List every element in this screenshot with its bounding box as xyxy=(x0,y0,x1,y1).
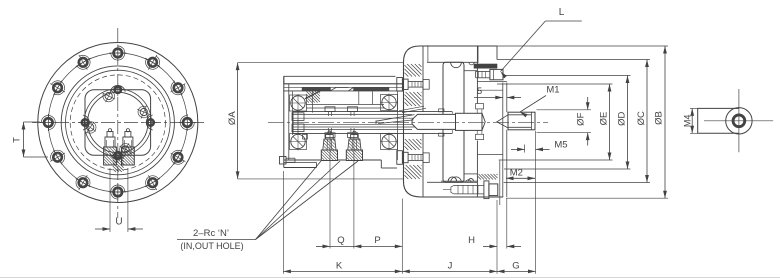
dimension M5 xyxy=(511,145,550,153)
front counterbore circle xyxy=(84,89,151,156)
shaft bore chevron xyxy=(497,115,508,128)
rotor pilot lines top xyxy=(464,71,477,174)
band gap chamfer right xyxy=(349,88,354,91)
bolt hole 8 at 210 deg xyxy=(46,146,69,169)
dimension J xyxy=(402,270,497,274)
svg-text:M5: M5 xyxy=(554,140,567,151)
bolt hole 4 at 90 deg xyxy=(109,45,126,62)
bearing at (389,102.5) xyxy=(380,94,398,112)
extension J right xyxy=(496,200,498,274)
extension K left xyxy=(282,171,284,274)
shaft end boss xyxy=(508,112,535,130)
stud bottom-left xyxy=(397,151,429,165)
collar top key xyxy=(476,104,484,114)
dimension K xyxy=(283,270,402,274)
big body group xyxy=(397,45,507,205)
leader L xyxy=(501,21,546,78)
rotor slab small notch top right xyxy=(469,62,474,65)
housing small block left xyxy=(303,135,308,140)
svg-text:2–Rc ‘N’: 2–Rc ‘N’ xyxy=(193,228,229,239)
M4 vertical center line xyxy=(738,89,740,152)
svg-text:M1: M1 xyxy=(546,85,559,96)
bolt hole 3 at 60 deg xyxy=(141,51,164,74)
dowel pin hole d xyxy=(116,140,135,159)
shaft left end caps xyxy=(293,112,298,134)
big body outline xyxy=(404,46,504,197)
rotor slab small notch bottom right xyxy=(466,180,471,183)
side port plug x=329.4 xyxy=(321,131,337,160)
svg-text:5: 5 xyxy=(477,86,482,97)
M4 thread outer circle xyxy=(732,114,746,128)
bolt hole 2 at 30 deg xyxy=(166,76,189,99)
leader L landing xyxy=(545,20,581,22)
shaft bundle lines xyxy=(293,112,452,134)
bearing at (389,141.5) xyxy=(380,133,398,151)
dimension 5 xyxy=(474,96,521,100)
svg-text:ØF: ØF xyxy=(575,112,586,125)
shaft tube xyxy=(412,114,456,129)
dimension M4 xyxy=(690,108,698,133)
stud bottom-right xyxy=(443,181,498,199)
dimension OD xyxy=(504,76,631,170)
pocket floor hatch xyxy=(478,174,498,180)
dimension OB xyxy=(497,46,668,198)
dowel pin hole b xyxy=(80,118,99,137)
leader line to port 3 xyxy=(256,161,359,240)
svg-text:ØD: ØD xyxy=(617,112,628,126)
housing group xyxy=(280,76,453,168)
bolt hole 7 at 180 deg xyxy=(40,114,57,131)
leader M1 xyxy=(520,96,546,118)
bolt hole 9 at 240 deg xyxy=(71,171,94,194)
shaft tube top key xyxy=(439,109,445,112)
svg-text:P: P xyxy=(374,235,380,246)
band gap chamfer left xyxy=(331,88,337,91)
svg-text:M4: M4 xyxy=(682,115,692,128)
housing top dark band right xyxy=(354,88,390,91)
seal stack block lower xyxy=(292,124,304,132)
tie rod top x=352.5 xyxy=(348,107,358,116)
boss bump at (118,155) xyxy=(110,149,125,162)
body hatch top-left b xyxy=(405,92,422,106)
bottom faint border line xyxy=(0,277,780,279)
pocket ceiling dark band xyxy=(474,64,497,68)
housing top dark band left xyxy=(302,88,331,91)
housing top line 3 xyxy=(284,90,404,92)
M4 thread ring bold xyxy=(733,115,744,126)
body bolt face vertical xyxy=(476,46,478,197)
tie rod top x=330.0 xyxy=(325,107,335,116)
inner face detail vertical xyxy=(427,45,429,62)
dimension U arrows xyxy=(95,227,143,231)
housing partition verticals xyxy=(313,91,373,112)
housing top edge xyxy=(284,83,404,85)
body hatch bottom-left b xyxy=(405,165,422,179)
svg-text:T: T xyxy=(12,137,23,143)
housing lower left stud xyxy=(280,157,296,165)
M4 end circle xyxy=(726,108,752,134)
svg-text:ØB: ØB xyxy=(653,111,664,125)
bolt hole 1 at 0 deg xyxy=(179,114,196,131)
bearing at (298,141.5) xyxy=(289,133,307,151)
housing sleeve top lines xyxy=(306,105,384,109)
band gap top line xyxy=(336,87,349,89)
leader underline xyxy=(177,239,256,241)
collar bottom key xyxy=(476,130,484,139)
tie rod bottom x=352.5 xyxy=(348,128,358,137)
svg-text:G: G xyxy=(512,260,519,271)
rotor slab bottom notch dome xyxy=(451,177,462,182)
shaft tube bottom key xyxy=(439,133,445,136)
svg-text:L: L xyxy=(559,7,565,18)
rotor flange face lines xyxy=(427,62,477,182)
front boss circle D58 xyxy=(61,66,174,179)
rotor slab xyxy=(443,62,464,182)
bolt hole 10 at 270 deg xyxy=(109,184,126,201)
M4 horizontal center line xyxy=(704,120,773,122)
front flange outer circle xyxy=(38,43,198,203)
dimension OC xyxy=(497,60,650,183)
bearing at (298,103) xyxy=(289,94,307,112)
dimension M2 xyxy=(506,131,536,274)
pocket shelf line xyxy=(477,81,506,83)
M4 boss body xyxy=(698,108,739,133)
svg-text:ØE: ØE xyxy=(598,112,609,126)
M4 detail group xyxy=(682,89,773,152)
front rotor square with rounded corners xyxy=(85,90,151,156)
body hatch top-left a xyxy=(405,64,422,77)
tie rod bottom x=330.0 xyxy=(325,128,335,137)
housing inner right vertical xyxy=(397,91,399,160)
svg-text:Q: Q xyxy=(337,235,344,246)
boss bump at (118,90) xyxy=(110,83,125,96)
front vertical center line xyxy=(117,28,119,218)
housing left face xyxy=(284,76,293,167)
housing bottom edge xyxy=(284,160,397,168)
extension Q right port centerline xyxy=(353,130,355,249)
extension Q left port centerline xyxy=(329,130,331,249)
svg-text:(IN,OUT HOLE): (IN,OUT HOLE) xyxy=(180,241,243,251)
side port plug x=354.4 xyxy=(346,131,362,160)
dimension H xyxy=(483,245,521,249)
boss bump at (85,122) xyxy=(79,115,92,130)
svg-text:U: U xyxy=(115,217,122,228)
housing bottom rib xyxy=(284,163,317,168)
dimension U extension lines xyxy=(110,168,128,232)
body lower right edge xyxy=(499,161,501,206)
leader line to port 1 xyxy=(256,161,322,240)
bolt hole 11 at 300 deg xyxy=(141,171,164,194)
front phantom circle dashed xyxy=(70,75,165,170)
stud top-left xyxy=(397,78,429,92)
front boss circle D53 xyxy=(66,70,171,175)
svg-text:ØC: ØC xyxy=(636,111,647,125)
housing top line 2 xyxy=(284,86,404,88)
shaft taper diagonals xyxy=(376,106,426,124)
housing top rib line xyxy=(284,76,396,84)
side view center line xyxy=(268,121,548,123)
leader line to port 2 xyxy=(256,161,341,240)
svg-text:H: H xyxy=(468,235,475,246)
grease domes xyxy=(441,177,478,181)
dimension OF xyxy=(537,97,592,146)
bolt hole 12 at 330 deg xyxy=(166,146,189,169)
front view group xyxy=(32,28,204,218)
front port plug at x=110.0 xyxy=(104,129,117,165)
svg-text:ØA: ØA xyxy=(227,111,238,125)
dimension OE xyxy=(497,84,613,160)
housing chamfer diagonal 1 xyxy=(305,91,321,99)
front port plug at x=127.9 xyxy=(122,129,135,165)
extension P right xyxy=(401,199,403,274)
big body inner face xyxy=(422,46,424,197)
svg-text:J: J xyxy=(448,260,453,271)
dowel pin hole c xyxy=(135,103,153,121)
dowel pin hole a xyxy=(99,87,118,106)
housing left wedge hatch xyxy=(306,89,320,103)
seal stack block upper xyxy=(292,113,304,121)
hub verticals xyxy=(503,83,507,198)
dimension P xyxy=(354,245,402,249)
front horizontal center line xyxy=(32,122,204,124)
dimension OA xyxy=(236,63,404,179)
svg-text:K: K xyxy=(336,260,343,271)
dimension G xyxy=(497,270,536,274)
front bolt circle xyxy=(48,53,187,192)
big body top step xyxy=(478,46,497,63)
boss bump at (151,122) xyxy=(144,115,157,130)
extension H right xyxy=(506,199,508,249)
front bore circle xyxy=(88,92,148,152)
dimension T xyxy=(22,122,48,157)
body hatch bottom-left a xyxy=(405,139,422,150)
bolt hole 6 at 150 deg xyxy=(46,76,69,99)
dimension Q xyxy=(316,245,354,249)
rotor slab top notch dome xyxy=(451,62,462,67)
stud top-right L bolt xyxy=(476,69,503,79)
shaft collar xyxy=(456,113,486,130)
bolt hole 5 at 120 deg xyxy=(71,51,94,74)
front port center hatch xyxy=(113,152,124,172)
hub shoulder lines xyxy=(477,90,502,154)
